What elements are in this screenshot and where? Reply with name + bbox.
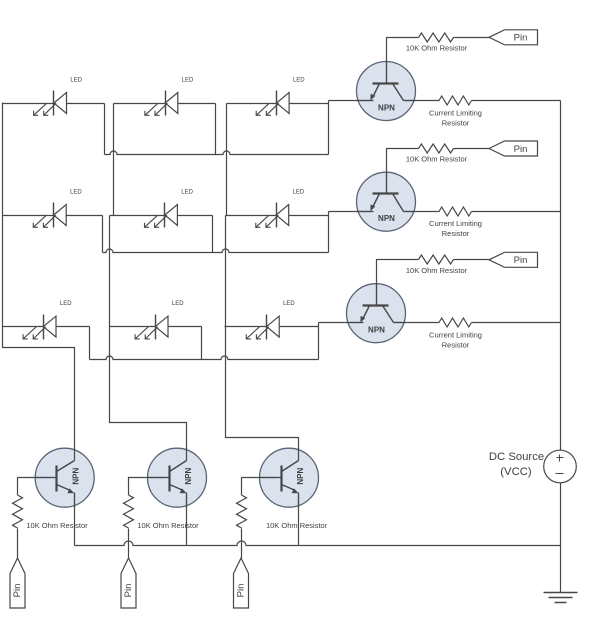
label current limiting resistor row 2: [429, 219, 482, 238]
LED D33: [246, 315, 279, 340]
wire LED D12 anode side (right): [178, 103, 216, 105]
LED D22: [145, 203, 178, 228]
wire LED D13 cathode side (left): [227, 103, 277, 105]
svg-text:Pin: Pin: [236, 584, 247, 598]
pin callout row 1: [489, 30, 538, 45]
wire rail 3 riser to transistor: [318, 323, 320, 360]
LED D11: [34, 91, 67, 116]
svg-text:(VCC): (VCC): [500, 466, 532, 478]
wire drop D21 to rail 2: [102, 216, 104, 253]
label 10K Ohm Resistor row 1: [406, 43, 468, 52]
wire LED D21 anode side (right): [67, 215, 103, 217]
svg-text:Resistor: Resistor: [442, 229, 470, 238]
label DC Source (VCC): [489, 451, 544, 478]
wire Q6 base: [242, 478, 277, 496]
wire drop D32 to rail 3: [201, 327, 203, 360]
LED D12: [145, 91, 178, 116]
label LED D21: [70, 190, 82, 196]
resistor 10K column 1: [13, 495, 23, 528]
wire CL resistor row 1 to VCC rail: [472, 100, 561, 102]
pin callout row 2: [489, 141, 538, 156]
LED D23: [256, 203, 289, 228]
label LED D11: [70, 78, 82, 84]
wire Q3 emitter to row 3: [319, 322, 364, 324]
pin callout column 1: [10, 558, 25, 608]
pin callout column 2: [121, 558, 136, 608]
svg-text:10K Ohm Resistor: 10K Ohm Resistor: [266, 521, 328, 530]
transistor Q4 (column 1 driver, NPN): [35, 448, 94, 507]
wire rail 2 riser to transistor: [328, 212, 330, 253]
row rail 1: [105, 151, 329, 154]
svg-text:10K Ohm Resistor: 10K Ohm Resistor: [406, 266, 468, 275]
wire Q3 base: [377, 260, 419, 306]
wire Q6 emitter to bottom rail: [298, 494, 300, 546]
svg-text:Pin: Pin: [514, 144, 528, 155]
svg-text:NPN: NPN: [184, 468, 193, 485]
svg-text:LED: LED: [70, 78, 82, 84]
svg-text:Pin: Pin: [514, 33, 528, 44]
wire LED D31 anode side (right): [57, 326, 90, 328]
LED D13: [256, 91, 289, 116]
wire Q1 base: [387, 38, 419, 84]
wire LED D12 cathode side (left): [114, 103, 166, 105]
resistor 10K row 3: [419, 255, 454, 264]
column 2 wire lower: [110, 216, 187, 461]
wire resistor to pin column 1: [17, 529, 19, 559]
svg-text:LED: LED: [181, 190, 193, 196]
label current limiting resistor row 3: [429, 331, 482, 350]
svg-text:LED: LED: [60, 301, 72, 307]
wire LED D22 anode side (right): [178, 215, 213, 217]
wire LED D32 anode side (right): [169, 326, 202, 328]
wire Q5 base: [129, 478, 165, 496]
resistor 10K column 3: [237, 495, 247, 528]
svg-text:10K Ohm Resistor: 10K Ohm Resistor: [137, 521, 199, 530]
resistor 10K column 2: [124, 495, 134, 528]
svg-text:LED: LED: [172, 301, 184, 307]
wire resistor to pin row 2: [454, 148, 490, 150]
svg-text:DC Source: DC Source: [489, 451, 544, 463]
DC source V1 (VCC): [544, 450, 577, 483]
svg-text:Resistor: Resistor: [442, 341, 470, 350]
svg-text:10K Ohm Resistor: 10K Ohm Resistor: [26, 521, 88, 530]
row rail 3: [90, 356, 319, 360]
wire Q1 collector: [404, 100, 440, 102]
svg-text:NPN: NPN: [378, 214, 395, 223]
label 10K Ohm Resistor row 3: [406, 266, 468, 275]
label LED D13: [293, 78, 305, 84]
row rail 2: [103, 249, 329, 252]
label LED D23: [293, 190, 305, 196]
wire resistor to pin row 3: [454, 259, 490, 261]
VCC rail lower: [560, 483, 562, 593]
wire LED D32 cathode side (left): [110, 326, 156, 328]
svg-text:Current Limiting: Current Limiting: [429, 219, 482, 228]
resistor current-limiting row 3: [439, 318, 472, 327]
column 3 wire lower: [226, 216, 299, 461]
bottom rail: [75, 541, 561, 546]
svg-text:Current Limiting: Current Limiting: [429, 109, 482, 118]
wire Q1 emitter to row 1: [329, 100, 374, 102]
wire LED D23 cathode side (left): [226, 215, 277, 217]
wire CL resistor row 2 to VCC rail: [472, 211, 561, 213]
wire LED D23 anode side (right): [289, 215, 329, 217]
wire LED D31 cathode side (left): [3, 326, 44, 328]
svg-text:LED: LED: [182, 78, 194, 84]
label 10K Ohm Resistor row 2: [406, 155, 468, 164]
svg-text:Pin: Pin: [514, 255, 528, 266]
wire LED D21 cathode side (left): [3, 215, 54, 217]
wire CL resistor row 3 to VCC rail: [472, 322, 561, 324]
VCC rail upper: [560, 101, 562, 451]
wire Q4 base: [18, 478, 52, 496]
column 3 wire upper: [226, 104, 228, 216]
svg-text:LED: LED: [70, 190, 82, 196]
transistor Q6 (column 3 driver, NPN): [260, 448, 319, 507]
resistor current-limiting row 1: [439, 96, 472, 105]
wire LED D22 cathode side (left): [110, 215, 165, 217]
pin callout row 3: [489, 252, 538, 267]
svg-text:NPN: NPN: [368, 326, 385, 335]
label LED D33: [283, 301, 295, 307]
svg-text:Pin: Pin: [123, 584, 134, 598]
column 2 wire upper: [113, 104, 115, 216]
wire drop D31 to rail 3: [89, 327, 91, 360]
pin callout column 3: [234, 558, 249, 608]
label current limiting resistor row 1: [429, 109, 482, 128]
wire Q5 emitter to bottom rail: [186, 494, 188, 546]
wire LED D11 cathode side (left): [3, 103, 54, 105]
transistor Q3 (row 3 driver, NPN): [347, 284, 406, 343]
label 10K Ohm Resistor column 3: [266, 521, 328, 530]
LED D21: [33, 203, 66, 228]
svg-text:Pin: Pin: [12, 584, 23, 598]
column 1 wire: [3, 103, 75, 461]
LED D32: [135, 315, 168, 340]
svg-text:Current Limiting: Current Limiting: [429, 331, 482, 340]
wire Q4 emitter to bottom rail: [74, 494, 76, 546]
label LED D22: [181, 190, 193, 196]
wire resistor to pin column 3: [241, 529, 243, 559]
wire Q2 base: [387, 149, 419, 194]
transistor Q5 (column 2 driver, NPN): [148, 448, 207, 507]
resistor current-limiting row 2: [439, 207, 472, 216]
wire LED D11 anode side (right): [67, 103, 105, 105]
LED D31: [23, 315, 56, 340]
wire Q2 collector: [404, 211, 440, 213]
label LED D32: [172, 301, 184, 307]
wire LED D33 cathode side (left): [225, 326, 267, 328]
label LED D31: [60, 301, 72, 307]
ground: [544, 593, 578, 603]
resistor 10K row 2: [419, 144, 454, 153]
svg-text:LED: LED: [283, 301, 295, 307]
wire resistor to pin row 1: [454, 37, 490, 39]
wire LED D33 anode side (right): [280, 326, 319, 328]
wire LED D13 anode side (right): [290, 103, 329, 105]
resistor 10K row 1: [419, 33, 454, 42]
svg-text:NPN: NPN: [378, 104, 395, 113]
transistor Q2 (row 2 driver, NPN): [357, 172, 416, 231]
wire rail 1 riser to transistor: [328, 101, 330, 155]
wire drop D11 to rail 1: [104, 104, 106, 155]
wire drop D22 to rail 2: [212, 216, 214, 253]
transistor Q1 (row 1 driver, NPN): [357, 62, 416, 121]
wire resistor to pin column 2: [128, 529, 130, 559]
wire drop D12 to rail 1: [215, 104, 217, 155]
svg-text:10K Ohm Resistor: 10K Ohm Resistor: [406, 155, 468, 164]
wire Q2 emitter to row 2: [329, 211, 374, 213]
label LED D12: [182, 78, 194, 84]
svg-text:LED: LED: [293, 190, 305, 196]
svg-text:10K Ohm Resistor: 10K Ohm Resistor: [406, 43, 468, 52]
svg-text:NPN: NPN: [72, 468, 81, 485]
svg-text:NPN: NPN: [296, 468, 305, 485]
svg-text:LED: LED: [293, 78, 305, 84]
label 10K Ohm Resistor column 2: [137, 521, 199, 530]
wire Q3 collector: [394, 322, 440, 324]
label 10K Ohm Resistor column 1: [26, 521, 88, 530]
svg-text:Resistor: Resistor: [442, 119, 470, 128]
